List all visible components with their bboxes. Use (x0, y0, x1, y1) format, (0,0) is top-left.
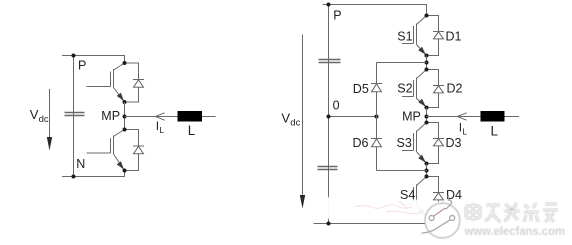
diode D3 (antiparallel) (427, 123, 445, 164)
capacitor C2 (right, lower DC link) (318, 167, 338, 170)
svg-text:D1: D1 (446, 29, 462, 43)
wire: clamp branch to D5 (377, 62, 427, 64)
inductor L (left, black box) (178, 111, 203, 122)
svg-text:D3: D3 (446, 136, 462, 150)
Vdc arrow (left) (47, 89, 52, 151)
svg-text:P: P (333, 9, 341, 23)
watermark text: dian zi fa shao you (drawn strokes) (466, 203, 558, 222)
transistor top IGBT (left leg) (IGBT) (87, 63, 125, 102)
watermark logo: faint red trace on cable (435, 209, 445, 216)
node: bottom-left IGBT collector dot (123, 128, 127, 132)
node: bottom-left IGBT emitter dot (123, 169, 127, 173)
svg-text:MP: MP (101, 109, 120, 123)
node: S3 collector dot (425, 121, 429, 125)
node: S4 emitter dot (425, 215, 429, 219)
label Vdc (right) (281, 111, 300, 129)
node: S4 collector dot (425, 175, 429, 179)
watermark: red scribbles near bottom rail (355, 201, 422, 214)
watermark: white cloud blob hiding S4 lower half (314, 197, 477, 224)
svg-text:L: L (491, 124, 499, 139)
wire: top rail P (left) (62, 56, 125, 64)
transistor S4 (IGBT) (402, 177, 427, 217)
wire: leg emitter to MP (left) (124, 102, 126, 130)
node: S2 collector dot (425, 68, 429, 72)
svg-text:www.elecfans.com: www.elecfans.com (464, 224, 565, 238)
wire: top rail P (right) (323, 5, 427, 16)
diode D6 (clamp) (371, 117, 382, 171)
svg-text:L: L (188, 123, 196, 138)
watermark: red dot in text (510, 208, 513, 211)
watermark logo: big circle (425, 203, 460, 238)
Vdc arrow (right) (300, 35, 305, 209)
arrow IL (left, pointing left) (155, 113, 164, 120)
svg-text:MP: MP (402, 110, 421, 124)
transistor S2 (IGBT) (402, 70, 427, 108)
node: bottom rail bus dot (right) (327, 222, 331, 226)
transistor S1 (IGBT) (402, 16, 427, 56)
svg-text:S2: S2 (397, 82, 412, 96)
transistor bottom IGBT (left leg) (IGBT) (87, 130, 125, 171)
label Vdc (left) (30, 107, 49, 125)
wire: leg S2 emitter to S3 collector (426, 108, 428, 123)
label IL (left) (156, 119, 165, 135)
node: P rail junction dot (left) (72, 54, 76, 58)
wire: left DC bus vertical (73, 56, 75, 177)
watermark logo: cable lower segment (422, 220, 451, 233)
node: 0 rail right dot (375, 115, 379, 119)
node: top-left IGBT emitter dot (123, 100, 127, 104)
node: N rail junction dot (left) (72, 175, 76, 179)
wire: neutral 0 rail (329, 116, 377, 118)
transistor S3 (IGBT) (402, 123, 427, 164)
node: D6 clamp junction dot (425, 169, 429, 173)
node: P rail junction dot (right) (327, 3, 331, 7)
node MP dot (right) (425, 115, 429, 119)
diode D4 (antiparallel) (427, 177, 445, 217)
wire: bottom rail (right) (314, 223, 427, 225)
node: 0 rail left dot (327, 115, 331, 119)
svg-text:0: 0 (333, 99, 340, 113)
svg-text:dc: dc (39, 114, 49, 125)
diode D2 (antiparallel) (427, 70, 445, 108)
svg-text:D6: D6 (353, 136, 369, 150)
svg-text:N: N (76, 157, 85, 171)
inductor L (right, black box) (481, 111, 505, 122)
svg-text:D2: D2 (447, 82, 463, 96)
svg-text:L: L (462, 127, 467, 137)
label IL (right) (459, 121, 468, 137)
svg-text:S1: S1 (397, 29, 412, 43)
wire: leg S1 emitter to S2 collector (426, 56, 428, 70)
arrow IL (right, pointing left) (457, 113, 466, 120)
svg-text:dc: dc (290, 118, 300, 129)
wire: leg S3 emitter to S4 collector (426, 164, 428, 177)
watermark logo: cable upper segment with hook (433, 195, 451, 217)
svg-text:V: V (30, 107, 39, 122)
capacitor C1 (right, upper DC link) (319, 60, 341, 63)
svg-text:V: V (281, 111, 290, 126)
wire: right DC bus vertical (328, 5, 330, 224)
node: top-left IGBT collector dot (123, 61, 127, 65)
watermark logo: right pin circle (450, 216, 455, 221)
node MP dot (left) (123, 115, 127, 119)
node: S3 emitter dot (425, 162, 429, 166)
wire: bottom rail N (left) (62, 171, 125, 177)
diode antiparallel of top-left IGBT (antiparallel) (125, 63, 145, 102)
svg-text:S3: S3 (397, 136, 412, 150)
wire: MP output wire (right) (427, 116, 520, 118)
diode D1 (antiparallel) (427, 16, 445, 56)
svg-text:D5: D5 (353, 82, 369, 96)
svg-text:L: L (159, 125, 164, 135)
diode D5 (clamp) (371, 63, 382, 117)
node: D5 clamp junction dot (425, 61, 429, 65)
node: S1 emitter dot (425, 54, 429, 58)
wire: MP output wire (left) (125, 116, 216, 118)
capacitor (DC link, left) (65, 113, 85, 116)
wire: clamp branch to D6 (377, 170, 427, 172)
diode antiparallel of bottom-left IGBT (antiparallel) (125, 130, 145, 171)
wire: S4 emitter to bottom rail (426, 217, 428, 224)
watermark logo: left pin circle (429, 216, 434, 221)
node: S2 emitter dot (425, 106, 429, 110)
svg-text:P: P (78, 58, 86, 72)
node: S1 collector dot (425, 14, 429, 18)
